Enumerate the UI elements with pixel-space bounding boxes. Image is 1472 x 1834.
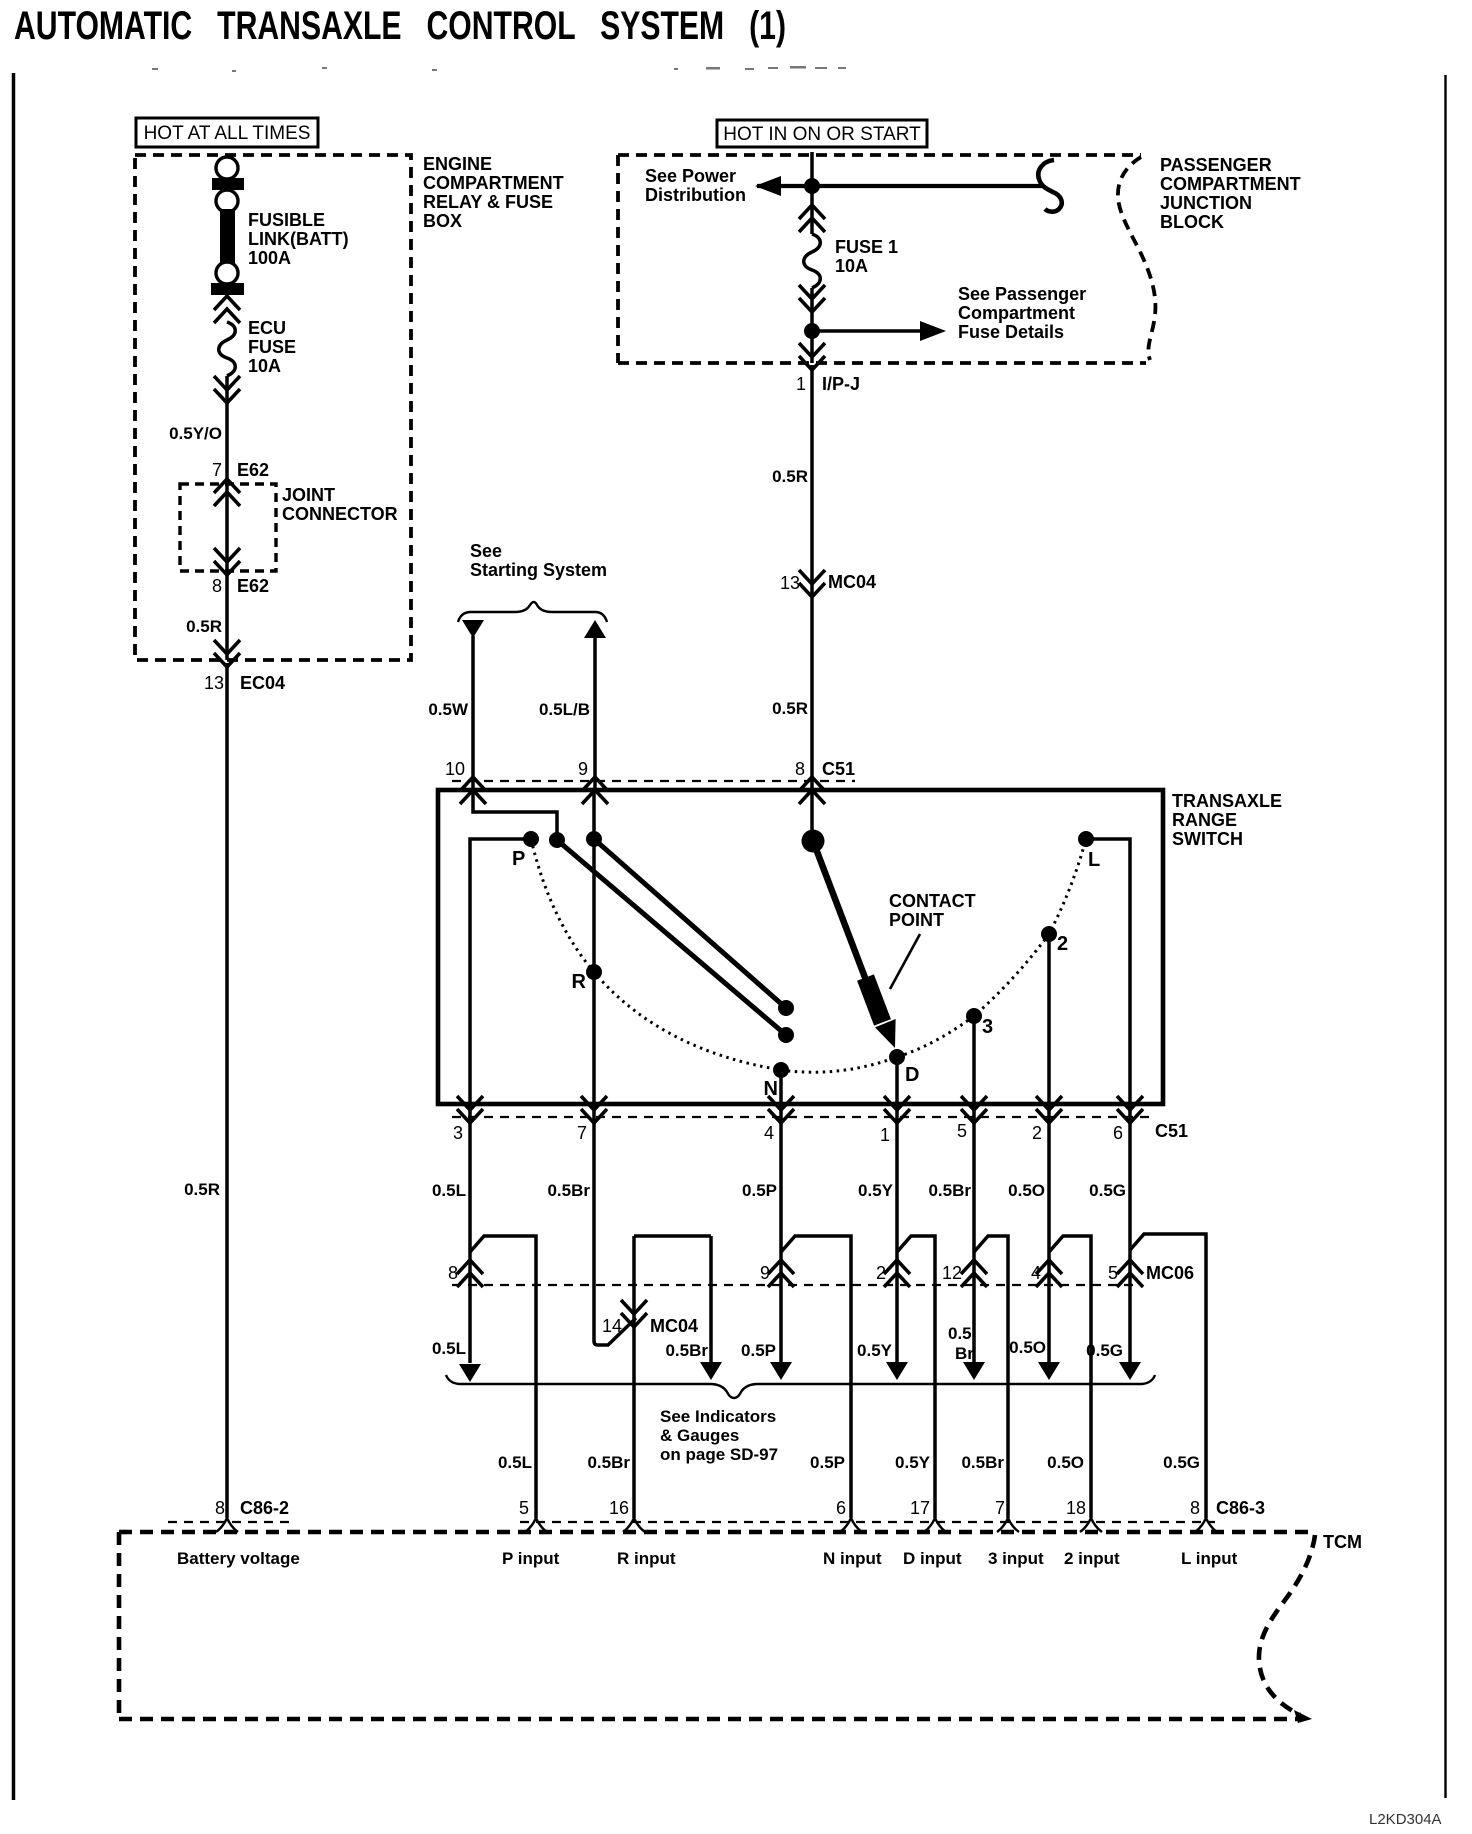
- svg-text:D: D: [905, 1064, 919, 1086]
- svg-text:0.5W: 0.5W: [428, 700, 469, 719]
- wire 0.5L from pin3: [468, 1104, 472, 1363]
- svg-text:FUSE 1: FUSE 1: [835, 237, 898, 257]
- svg-text:9: 9: [760, 1263, 770, 1283]
- svg-text:RANGE: RANGE: [1172, 810, 1237, 830]
- svg-text:Fuse Details: Fuse Details: [958, 322, 1064, 342]
- svg-text:C51: C51: [1155, 1121, 1188, 1141]
- svg-text:16: 16: [609, 1498, 629, 1518]
- contact L dot and wire to pin6: [1078, 831, 1094, 847]
- MC06 entry chevrons: [457, 1260, 483, 1287]
- diagonal contact bar 1: [557, 840, 786, 1035]
- wire 0.5G bypass branch to TCM L input: [1130, 1234, 1206, 1518]
- svg-text:0.5Br: 0.5Br: [928, 1181, 971, 1200]
- TCM dashed box left edge: [117, 1532, 122, 1719]
- wire 0.5L bypass branch to TCM P input: [470, 1236, 536, 1518]
- junction block curved right edge: [1118, 157, 1156, 360]
- wire P contact to pin3: [470, 839, 531, 1102]
- C86-3 connector thin dashed line: [520, 1521, 1215, 1523]
- svg-text:2: 2: [876, 1263, 886, 1283]
- svg-text:FUSIBLE: FUSIBLE: [248, 210, 325, 230]
- svg-text:0.5Br: 0.5Br: [961, 1453, 1004, 1472]
- wire 0.5Br bypass branch to TCM 3 input: [974, 1236, 1008, 1518]
- svg-text:0.5L: 0.5L: [432, 1181, 466, 1200]
- svg-text:R: R: [572, 971, 587, 993]
- wire 0.5Y bypass branch to TCM D input: [897, 1236, 935, 1518]
- scan noise dots top: [152, 66, 846, 72]
- HOT AT ALL TIMES label box: [136, 118, 318, 147]
- svg-text:E62: E62: [237, 576, 269, 596]
- TCM dashed box bottom edge: [119, 1717, 1298, 1722]
- page border right: [1444, 75, 1446, 1798]
- wire R-input vertical through MC04: [632, 1236, 636, 1518]
- contact R dot: [586, 964, 602, 980]
- svg-text:0.5Br: 0.5Br: [587, 1453, 630, 1472]
- svg-text:1: 1: [796, 374, 806, 394]
- pivot dot: [802, 830, 825, 853]
- svg-text:3 input: 3 input: [988, 1549, 1044, 1568]
- svg-text:R input: R input: [617, 1549, 676, 1568]
- svg-text:See Power: See Power: [645, 166, 736, 186]
- svg-text:2: 2: [1032, 1123, 1042, 1143]
- wire 0.5G from pin6: [1128, 1104, 1132, 1363]
- svg-text:12: 12: [942, 1263, 962, 1283]
- svg-text:AUTOMATIC TRANSAXLE CONTROL SY: AUTOMATIC TRANSAXLE CONTROL SYSTEM (1): [14, 4, 786, 48]
- svg-text:3: 3: [982, 1016, 993, 1038]
- svg-text:0.5Y: 0.5Y: [858, 1181, 894, 1200]
- FUSE 1 wavy symbol: [804, 234, 821, 288]
- svg-text:0.5R: 0.5R: [772, 467, 808, 486]
- svg-text:0.5P: 0.5P: [742, 1181, 777, 1200]
- svg-text:on page SD-97: on page SD-97: [660, 1445, 778, 1464]
- svg-text:I/P-J: I/P-J: [822, 374, 860, 394]
- arm arrowhead: [875, 1019, 896, 1048]
- contact dot for upper diagonal: [549, 832, 565, 848]
- svg-text:100A: 100A: [248, 248, 291, 268]
- svg-text:0.5P: 0.5P: [810, 1453, 845, 1472]
- junction dot 2: [804, 323, 820, 339]
- svg-text:8: 8: [448, 1263, 458, 1283]
- svg-text:CONTACT: CONTACT: [889, 891, 976, 911]
- svg-text:E62: E62: [237, 460, 269, 480]
- contact 2 dot and wire to pin2: [1041, 926, 1057, 942]
- C86-2 connector thin dashed line: [168, 1521, 296, 1523]
- svg-text:13: 13: [780, 573, 800, 593]
- indicator branch 0.5Br with arrow: [709, 1236, 713, 1363]
- svg-text:0.5G: 0.5G: [1163, 1453, 1200, 1472]
- junction dot: [804, 178, 820, 194]
- svg-text:L: L: [1088, 849, 1100, 871]
- wire 0.5Y from pin1: [895, 1104, 899, 1363]
- svg-text:See Passenger: See Passenger: [958, 284, 1086, 304]
- svg-text:COMPARTMENT: COMPARTMENT: [1160, 174, 1301, 194]
- svg-text:7: 7: [212, 460, 222, 480]
- svg-text:0.5Br: 0.5Br: [547, 1181, 590, 1200]
- svg-text:14: 14: [602, 1316, 622, 1336]
- svg-text:8: 8: [212, 576, 222, 596]
- svg-text:2: 2: [1057, 933, 1068, 955]
- svg-text:5: 5: [957, 1121, 967, 1141]
- connector chevrons below ECU fuse: [214, 376, 240, 403]
- TCM bottom edge arrowhead: [1294, 1710, 1312, 1723]
- svg-text:0.5G: 0.5G: [1089, 1181, 1126, 1200]
- svg-text:4: 4: [1031, 1263, 1041, 1283]
- diagonal contact bar 2: [594, 839, 786, 1008]
- svg-text:2 input: 2 input: [1064, 1549, 1120, 1568]
- page border left: [12, 73, 16, 1800]
- wire 0.5P from pin4: [779, 1104, 783, 1363]
- svg-text:18: 18: [1066, 1498, 1086, 1518]
- svg-text:POINT: POINT: [889, 910, 944, 930]
- contact point pointer line: [890, 934, 920, 989]
- svg-text:13: 13: [204, 673, 224, 693]
- chevrons above FUSE 1: [799, 205, 825, 232]
- fuse details wire with right arrow: [812, 329, 924, 333]
- svg-text:& Gauges: & Gauges: [660, 1426, 739, 1445]
- wire pin8 down to pivot dot: [810, 792, 814, 836]
- brace over starting system wires: [458, 602, 607, 622]
- svg-text:0.5Y/O: 0.5Y/O: [169, 424, 222, 443]
- fusible link FUSIBLE LINK(BATT) 100A: [216, 157, 238, 179]
- svg-text:0.5L: 0.5L: [432, 1339, 466, 1358]
- C51 bottom exit chevrons: [457, 1096, 483, 1123]
- svg-text:P input: P input: [502, 1549, 560, 1568]
- C51 connector dashed line (bottom): [452, 1116, 1150, 1118]
- svg-text:MC04: MC04: [828, 572, 876, 592]
- svg-text:CONNECTOR: CONNECTOR: [282, 504, 398, 524]
- contact N dot and wire to pin4: [773, 1062, 789, 1078]
- svg-text:6: 6: [836, 1498, 846, 1518]
- svg-text:0.5O: 0.5O: [1009, 1338, 1046, 1357]
- svg-text:EC04: EC04: [240, 673, 285, 693]
- MC06 connector dashed line: [452, 1284, 1140, 1286]
- svg-text:TCM: TCM: [1323, 1532, 1362, 1552]
- svg-text:5: 5: [1108, 1263, 1118, 1283]
- starting system wire 0.5L/B with up arrow: [584, 620, 606, 638]
- svg-text:JOINT: JOINT: [282, 485, 335, 505]
- svg-text:COMPARTMENT: COMPARTMENT: [423, 173, 564, 193]
- svg-text:10A: 10A: [835, 256, 868, 276]
- svg-text:Starting System: Starting System: [470, 560, 607, 580]
- svg-text:7: 7: [577, 1123, 587, 1143]
- svg-text:BOX: BOX: [423, 211, 462, 231]
- svg-text:3: 3: [453, 1123, 463, 1143]
- svg-text:4: 4: [764, 1123, 774, 1143]
- svg-text:D input: D input: [903, 1549, 962, 1568]
- svg-text:See Indicators: See Indicators: [660, 1407, 776, 1426]
- ECU fuse wavy symbol: [219, 322, 236, 376]
- brace under indicator arrows: [446, 1375, 1155, 1398]
- svg-text:C51: C51: [822, 759, 855, 779]
- starting system wire 0.5W with down arrow: [462, 620, 484, 638]
- TCM dashed box curved right edge: [1259, 1535, 1315, 1715]
- HOT IN ON OR START label box: [717, 120, 927, 147]
- wire 0.5R down to C51: [810, 365, 814, 790]
- transaxle range switch box: [438, 790, 1163, 1104]
- TCM dashed box top edge: [119, 1530, 1315, 1535]
- contact dot on pin9 wire: [586, 831, 602, 847]
- chevrons at engine box exit: [214, 640, 240, 667]
- svg-text:SWITCH: SWITCH: [1172, 829, 1243, 849]
- 0.5L indicator arrow: [459, 1364, 481, 1382]
- svg-text:0.5Y: 0.5Y: [895, 1453, 931, 1472]
- svg-text:Compartment: Compartment: [958, 303, 1075, 323]
- TCM fork entries: [525, 1518, 547, 1532]
- svg-text:0.5P: 0.5P: [741, 1341, 776, 1360]
- svg-text:0.5Y: 0.5Y: [857, 1341, 893, 1360]
- svg-text:TRANSAXLE: TRANSAXLE: [1172, 791, 1282, 811]
- svg-text:0.5R: 0.5R: [184, 1180, 220, 1199]
- svg-text:BLOCK: BLOCK: [1160, 212, 1224, 232]
- wire through joint connector: [225, 481, 229, 660]
- wire 0.5Br from pin7: [594, 1104, 636, 1345]
- svg-text:0.5Br: 0.5Br: [665, 1341, 708, 1360]
- long battery wire 0.5R down to TCM: [225, 663, 229, 1518]
- svg-text:8: 8: [1190, 1498, 1200, 1518]
- svg-text:0.5O: 0.5O: [1047, 1453, 1084, 1472]
- contact 3 dot and wire to pin5: [966, 1008, 982, 1024]
- svg-text:0.5R: 0.5R: [186, 617, 222, 636]
- dotted rotor arc P to L: [531, 839, 1086, 1072]
- joint connector exit chevrons: [214, 548, 240, 575]
- svg-text:FUSE: FUSE: [248, 337, 296, 357]
- svg-text:See: See: [470, 541, 502, 561]
- C51 entry chevrons: [460, 777, 486, 804]
- wire to junction dot: [810, 288, 814, 363]
- svg-text:8: 8: [795, 759, 805, 779]
- hook at right end of wire: [1038, 160, 1061, 212]
- svg-text:9: 9: [578, 759, 588, 779]
- svg-text:Distribution: Distribution: [645, 185, 746, 205]
- svg-text:C86-2: C86-2: [240, 1498, 289, 1518]
- engine compartment relay & fuse box (dashed): [135, 155, 411, 660]
- svg-text:HOT AT ALL TIMES: HOT AT ALL TIMES: [144, 123, 311, 144]
- wire pin10 jog inside box: [473, 792, 557, 836]
- svg-text:P: P: [512, 848, 525, 870]
- svg-text:0.5O: 0.5O: [1008, 1181, 1045, 1200]
- connector chevrons below fusible link: [214, 296, 240, 323]
- svg-text:L input: L input: [1181, 1549, 1238, 1568]
- svg-text:10: 10: [445, 759, 465, 779]
- svg-text:ECU: ECU: [248, 318, 286, 338]
- svg-text:C86-3: C86-3: [1216, 1498, 1265, 1518]
- svg-text:RELAY & FUSE: RELAY & FUSE: [423, 192, 553, 212]
- svg-text:HOT IN ON OR START: HOT IN ON OR START: [723, 124, 921, 145]
- pin 13 MC04 connector: [799, 570, 825, 597]
- passenger compartment junction block dashed box: [618, 153, 1141, 157]
- svg-text:6: 6: [1113, 1123, 1123, 1143]
- svg-text:MC04: MC04: [650, 1316, 698, 1336]
- svg-text:8: 8: [215, 1498, 225, 1518]
- svg-text:5: 5: [519, 1498, 529, 1518]
- wire 0.5Br from pin5: [972, 1104, 976, 1363]
- MC04 pin 14 connector: [621, 1300, 647, 1327]
- svg-text:10A: 10A: [248, 356, 281, 376]
- svg-text:N input: N input: [823, 1549, 882, 1568]
- svg-text:PASSENGER: PASSENGER: [1160, 155, 1272, 175]
- wire 0.5Y/O: [225, 376, 229, 481]
- svg-text:0.5L: 0.5L: [498, 1453, 532, 1472]
- TCM fork entry battery: [216, 1518, 238, 1532]
- svg-text:17: 17: [910, 1498, 930, 1518]
- wire pin9 straight down to pin7: [592, 792, 596, 1102]
- svg-text:0.5G: 0.5G: [1086, 1341, 1123, 1360]
- svg-text:0.5: 0.5: [948, 1324, 972, 1343]
- power distribution wire with left arrow: [757, 184, 1042, 188]
- joint connector entry chevrons: [214, 479, 240, 506]
- wire from top edge down to fuse: [810, 152, 814, 234]
- svg-text:LINK(BATT): LINK(BATT): [248, 229, 349, 249]
- rotor arm thick line: [813, 841, 880, 1017]
- C51 connector dashed line (top): [452, 780, 855, 782]
- svg-text:JUNCTION: JUNCTION: [1160, 193, 1252, 213]
- svg-text:Battery voltage: Battery voltage: [177, 1549, 300, 1568]
- wire 0.5P bypass branch to TCM N input: [781, 1236, 851, 1518]
- bypass horizontal to indicator branch: [634, 1234, 711, 1238]
- svg-text:ENGINE: ENGINE: [423, 154, 492, 174]
- svg-text:7: 7: [995, 1498, 1005, 1518]
- I/P-J exit chevrons: [799, 343, 825, 370]
- chevrons below FUSE 1: [799, 285, 825, 312]
- svg-text:1: 1: [880, 1125, 890, 1145]
- svg-text:Br: Br: [955, 1344, 974, 1363]
- contact point bar on arm: [866, 978, 883, 1023]
- svg-text:0.5L/B: 0.5L/B: [539, 700, 590, 719]
- svg-text:MC06: MC06: [1146, 1263, 1194, 1283]
- joint connector dashed box: [180, 484, 276, 571]
- contact D dot and wire to pin1: [889, 1049, 905, 1065]
- contact P dot: [523, 831, 539, 847]
- svg-text:0.5R: 0.5R: [772, 699, 808, 718]
- svg-text:L2KD304A: L2KD304A: [1369, 1811, 1442, 1828]
- wire 0.5O from pin2: [1047, 1104, 1051, 1363]
- wire 0.5O bypass branch to TCM 2 input: [1049, 1236, 1091, 1518]
